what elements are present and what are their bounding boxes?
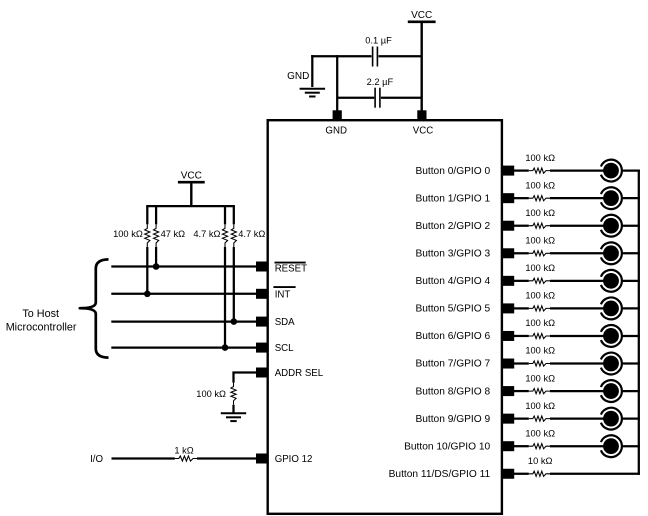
wire resistor to button 0 [550,169,604,171]
pin Button 10 (right of U1) [503,441,514,451]
wire button 6 to bus [622,335,640,337]
svg-text:Button 1/GPIO 1: Button 1/GPIO 1 [415,193,490,204]
ground symbol (ADDR SEL) [221,412,246,414]
svg-text:INT: INT [275,289,291,300]
svg-text:Button 6/GPIO 6: Button 6/GPIO 6 [415,331,490,342]
wire VCC rail down to VCC pin [421,22,423,111]
resistor 100 kΩ (row 1) [529,196,550,201]
button SW2 [601,215,622,237]
wire pin 11 to resistor [514,473,529,475]
pin Button 0 (right of U1) [503,166,514,176]
wire 2.2uF net (horizontal) [337,97,374,99]
node junction R4/SDA [231,318,238,325]
pin Button 1 (right of U1) [503,193,514,203]
resistor R6 1k [175,456,197,461]
wire button 7 to bus [622,362,640,364]
brace to host microcontroller [80,259,109,357]
power symbol VCC (top) [408,10,436,22]
resistor R3 4.7k pull-up [224,206,226,224]
svg-text:100 kΩ: 100 kΩ [525,346,555,356]
svg-text:VCC: VCC [411,10,432,21]
node junction R2/RESET [153,263,160,270]
svg-text:47 kΩ: 47 kΩ [161,229,186,239]
svg-text:RESET: RESET [275,263,307,274]
svg-text:4.7 kΩ: 4.7 kΩ [193,229,220,239]
button SW10 [601,435,622,457]
button SW1 [601,187,622,209]
wire GND branch down-left [311,55,313,87]
wire resistor to button 6 [550,335,604,337]
resistor 100 kΩ (row 7) [529,361,550,366]
resistor 10 kΩ (row 11) [529,471,550,476]
resistor 100 kΩ (row 2) [529,223,550,228]
svg-text:VCC: VCC [413,125,433,136]
pin label INT (with overline) [273,287,295,300]
svg-text:Button 7/GPIO 7: Button 7/GPIO 7 [415,359,490,370]
wire button 4 to bus [622,280,640,282]
wire button 1 to bus [622,197,640,199]
wire pin 6 to resistor [514,335,529,337]
svg-text:100 kΩ: 100 kΩ [525,235,555,245]
svg-text:VCC: VCC [181,171,202,182]
wire RESET net [111,265,256,267]
wire ADDR SEL to pull-down [234,373,257,383]
pin Button 2 (right of U1) [503,221,514,231]
pin SDA (left of U1) [256,317,268,327]
op IC body U1 [268,120,502,514]
svg-text:GND: GND [287,71,309,82]
svg-text:100 kΩ: 100 kΩ [525,180,555,190]
pin Button 11 (right of U1) [503,469,514,479]
svg-text:SCL: SCL [275,343,294,354]
resistor 100 kΩ (row 3) [529,251,550,256]
wire resistor to button 9 [550,418,604,420]
pin Button 5 (right of U1) [503,303,514,313]
svg-text:100 kΩ: 100 kΩ [525,153,555,163]
capacitor C2 2.2 uF [367,77,394,108]
resistor 100 kΩ (row 10) [529,444,550,449]
wire I/O to R6 [112,457,175,459]
svg-text:100 kΩ: 100 kΩ [525,401,555,411]
label To Host Microcontroller [6,308,77,334]
wire resistor to button 4 [550,280,604,282]
wire button 9 to bus [622,418,640,420]
node junction R3/SCL [222,344,229,351]
wire resistor to button 5 [550,307,604,309]
wire pin 9 to resistor [514,418,529,420]
pin Button 8 (right of U1) [503,386,514,396]
wire pin 4 to resistor [514,280,529,282]
svg-text:Button 11/DS/GPIO 11: Button 11/DS/GPIO 11 [389,469,491,480]
wire SDA net [111,320,256,322]
wire resistor row 11 to bus [550,473,640,475]
wire button 3 to bus [622,252,640,254]
svg-text:Button 0/GPIO 0: Button 0/GPIO 0 [415,166,490,177]
button SW6 [601,325,622,347]
wire VCC stub [190,182,192,206]
wire R6 to GPIO 12 [197,457,256,459]
svg-text:1 kΩ: 1 kΩ [174,445,193,455]
svg-text:Button 4/GPIO 4: Button 4/GPIO 4 [415,276,490,287]
svg-text:Microcontroller: Microcontroller [6,321,77,333]
wire pin 1 to resistor [514,197,529,199]
button SW8 [601,380,622,402]
pin Button 4 (right of U1) [503,276,514,286]
svg-text:Button 2/GPIO 2: Button 2/GPIO 2 [415,221,490,232]
wire resistor to button 3 [550,252,604,254]
svg-text:100 kΩ: 100 kΩ [525,291,555,301]
svg-text:GND: GND [325,125,347,136]
wire junction vertical to GND pin [336,55,338,111]
wire resistor to button 1 [550,197,604,199]
wire 0.1uF net (horizontal) [311,55,371,57]
wire SCL net [111,346,256,348]
svg-text:2.2 µF: 2.2 µF [367,77,394,87]
svg-text:Button 10/GPIO 10: Button 10/GPIO 10 [404,441,490,452]
button SW9 [601,408,622,430]
wire button 5 to bus [622,307,640,309]
svg-text:ADDR SEL: ADDR SEL [275,368,324,379]
svg-text:Button 3/GPIO 3: Button 3/GPIO 3 [415,248,490,259]
wire pin 10 to resistor [514,445,529,447]
pin GND (top of U1) [333,110,342,120]
button SW4 [601,270,622,292]
pin Button 9 (right of U1) [503,414,514,424]
wire resistor to button 7 [550,362,604,364]
resistor R4 4.7k pull-up [233,206,235,224]
svg-text:Button 9/GPIO 9: Button 9/GPIO 9 [415,414,490,425]
button SW7 [601,353,622,375]
svg-text:To Host: To Host [22,308,59,320]
resistor 100 kΩ (row 0) [529,168,550,173]
svg-text:100 kΩ: 100 kΩ [196,389,226,399]
resistor 100 kΩ (row 4) [529,278,550,283]
wire button common bus [638,170,640,475]
svg-text:SDA: SDA [275,317,295,328]
pin label RESET (with overline) [275,263,308,275]
wire pin 5 to resistor [514,307,529,309]
capacitor C1 0.1 uF [365,35,392,66]
svg-text:I/O: I/O [90,454,103,465]
node junction R1/INT [144,291,151,298]
ground symbol (top) [287,71,325,96]
resistor 100 kΩ (row 5) [529,306,550,311]
button SW0 [601,160,622,182]
button SW5 [601,298,622,320]
svg-text:10 kΩ: 10 kΩ [528,456,553,466]
pin SCL (left of U1) [256,343,268,353]
svg-text:100 kΩ: 100 kΩ [113,229,143,239]
wire pin 7 to resistor [514,362,529,364]
svg-text:4.7 kΩ: 4.7 kΩ [238,229,265,239]
resistor R1 100k pull-up [146,206,148,224]
svg-text:GPIO 12: GPIO 12 [275,454,313,465]
pin ADDR SEL (left of U1) [256,368,268,378]
wire pin 8 to resistor [514,390,529,392]
wire pin 0 to resistor [514,169,529,171]
wire button 8 to bus [622,390,640,392]
pin INT (left of U1) [256,289,268,299]
resistor 100 kΩ (row 6) [529,333,550,338]
button SW3 [601,242,622,264]
wire resistor to button 8 [550,390,604,392]
power symbol VCC (left) [178,171,205,183]
wire button 2 to bus [622,225,640,227]
svg-text:100 kΩ: 100 kΩ [525,373,555,383]
svg-text:100 kΩ: 100 kΩ [525,208,555,218]
wire pull-up bus [146,205,235,207]
svg-text:Button 5/GPIO 5: Button 5/GPIO 5 [415,304,490,315]
wire resistor to button 2 [550,225,604,227]
pin Button 7 (right of U1) [503,359,514,369]
wire button 0 to bus [622,169,640,171]
pin RESET (left of U1) [256,262,268,272]
svg-text:100 kΩ: 100 kΩ [525,263,555,273]
wire pin 3 to resistor [514,252,529,254]
resistor 100 kΩ (row 8) [529,389,550,394]
svg-text:100 kΩ: 100 kΩ [525,428,555,438]
wire pin 2 to resistor [514,225,529,227]
wire button 10 to bus [622,445,640,447]
resistor R5 100k pull-down [231,383,236,405]
resistor R2 47k pull-up [155,206,157,224]
svg-text:Button 8/GPIO 8: Button 8/GPIO 8 [415,386,490,397]
resistor 100 kΩ (row 9) [529,416,550,421]
pin Button 3 (right of U1) [503,248,514,258]
wire INT net [111,293,256,295]
pin GPIO 12 (left of U1) [256,454,268,464]
wire resistor to button 10 [550,445,604,447]
pin Button 6 (right of U1) [503,331,514,341]
pin VCC (top of U1) [417,110,426,120]
svg-text:100 kΩ: 100 kΩ [525,318,555,328]
svg-text:0.1 µF: 0.1 µF [365,35,392,45]
